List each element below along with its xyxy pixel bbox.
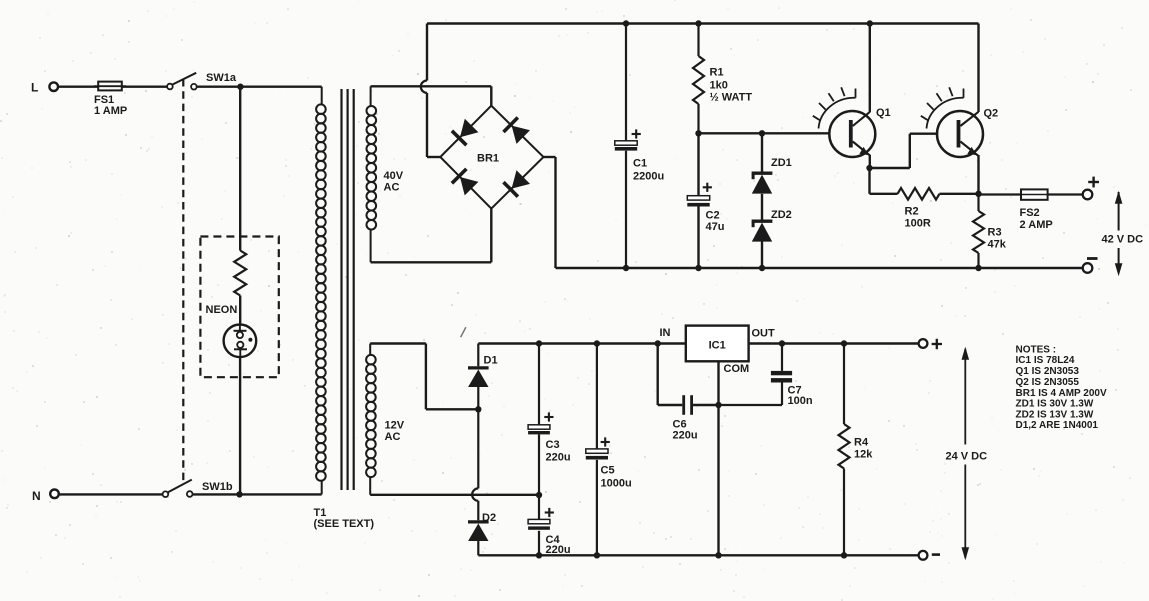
svg-text:IN: IN [660, 327, 671, 339]
svg-text:220u: 220u [546, 544, 571, 556]
node zener bottom [759, 265, 765, 271]
transformer 40V secondary winding [367, 86, 377, 262]
terminal 24V minus [919, 551, 940, 560]
node R3 bottom [975, 265, 981, 271]
42V DC span arrow [1102, 191, 1144, 276]
capacitor C5 [586, 344, 632, 556]
wire base drive [699, 132, 831, 134]
svg-text:COM: COM [724, 363, 750, 375]
label BR1 [477, 153, 499, 165]
24V DC span arrow [946, 347, 988, 560]
wire Q2 emitter [977, 155, 979, 194]
svg-text:BR1: BR1 [477, 153, 499, 165]
node COM bottom rail [715, 552, 721, 558]
svg-text:D2: D2 [482, 512, 496, 524]
wire Q1 collector [869, 24, 871, 113]
node R1 bottom junction [695, 130, 701, 136]
svg-text:ZD2 IS 13V 1.3W: ZD2 IS 13V 1.3W [1016, 410, 1094, 421]
svg-text:Q1: Q1 [876, 107, 891, 119]
svg-text:47k: 47k [988, 239, 1007, 251]
node C3 top [536, 340, 542, 346]
node R1 top [695, 20, 701, 26]
node COM C6 C7 [715, 402, 721, 408]
svg-text:AC: AC [384, 182, 400, 194]
node C1 top [623, 20, 629, 26]
scan artifact slash [461, 327, 466, 337]
bridge diode top-right [504, 118, 531, 144]
node Q1 emitter [866, 165, 872, 171]
svg-text:Q1 IS 2N3053: Q1 IS 2N3053 [1016, 366, 1080, 377]
wire COM [717, 361, 719, 555]
regulator IC1 [660, 326, 776, 375]
svg-text:Q2 IS 2N3055: Q2 IS 2N3055 [1016, 377, 1080, 388]
svg-text:2 AMP: 2 AMP [1020, 219, 1053, 231]
svg-text:½ WATT: ½ WATT [710, 92, 753, 104]
wire neon to bottom [239, 357, 241, 494]
node zener top [759, 130, 765, 136]
terminal 42V minus [1083, 259, 1098, 273]
node junction mains top [237, 84, 243, 90]
fuse FS1 [94, 82, 127, 117]
svg-text:12V: 12V [385, 420, 405, 432]
terminal L [31, 81, 58, 95]
svg-text:IC1 IS 78L24: IC1 IS 78L24 [1016, 355, 1075, 366]
bridge diode top-left [452, 119, 479, 145]
wire N to SW1b [59, 493, 163, 495]
wire IN drop [658, 344, 683, 406]
fuse FS2 [979, 189, 1083, 231]
zener ZD1 [752, 133, 792, 193]
wire 12V top lead to node [370, 344, 478, 410]
svg-text:C5: C5 [601, 465, 615, 477]
svg-text:R4: R4 [854, 437, 869, 449]
node C5 top [594, 340, 600, 346]
node C2 bottom [695, 265, 701, 271]
wire neon branch top [239, 87, 241, 251]
wire FS1 to SW1a [122, 85, 167, 87]
svg-text:OUT: OUT [752, 328, 776, 340]
svg-text:100R: 100R [905, 218, 931, 230]
svg-text:NOTES :: NOTES : [1016, 344, 1057, 355]
wire rail drop with hop [421, 24, 441, 158]
svg-text:AC: AC [385, 431, 401, 443]
svg-text:100n: 100n [788, 395, 813, 407]
wire SW1b to T1 primary [193, 493, 322, 495]
diode D2 with crossover hop [468, 409, 496, 555]
bridge rectifier BR1 frame [440, 106, 543, 209]
svg-text:D1: D1 [484, 355, 498, 367]
svg-text:L: L [31, 81, 38, 95]
node C1 bottom [623, 265, 629, 271]
svg-text:FS2: FS2 [1020, 207, 1040, 219]
svg-text:N: N [32, 489, 41, 503]
wire 40V bottom lead [371, 209, 492, 263]
svg-text:ZD1: ZD1 [771, 157, 792, 169]
resistor neon series [234, 251, 246, 296]
svg-text:C1: C1 [633, 158, 647, 170]
wire 12V bottom lead [370, 494, 539, 496]
resistor R4 [839, 344, 874, 556]
capacitor C6 [673, 395, 719, 441]
svg-text:ZD2: ZD2 [771, 209, 792, 221]
resistor R3 [973, 194, 1007, 268]
svg-text:R3: R3 [988, 227, 1002, 239]
wire SW1a to T1 primary [197, 85, 322, 87]
node Q1 collector rail [867, 20, 873, 26]
svg-text:12k: 12k [854, 449, 873, 461]
svg-text:40V: 40V [384, 170, 404, 182]
label 12V AC [385, 420, 405, 444]
neon dashed enclosure [200, 237, 278, 378]
transformer 12V secondary winding [366, 344, 376, 495]
svg-text:1k0: 1k0 [710, 80, 728, 92]
switch gang dashed link [182, 79, 184, 482]
node junction mains bottom [236, 491, 242, 497]
node R4 bottom [841, 552, 847, 558]
wire 40V top lead [371, 86, 492, 105]
svg-text:IC1: IC1 [709, 340, 726, 352]
svg-text:2200u: 2200u [633, 171, 664, 183]
svg-text:R2: R2 [905, 206, 919, 218]
wire lower plus rail [478, 342, 918, 344]
wire Q1e to Q2 base [870, 134, 939, 168]
bridge diode bottom-left [452, 169, 479, 196]
transformer T1 primary winding [316, 87, 326, 495]
zener ZD2 [752, 209, 792, 242]
label T1 [314, 507, 375, 530]
wire zener bottom [761, 242, 763, 269]
wire top rail [427, 22, 979, 24]
node R4 top [841, 340, 847, 346]
svg-text:220u: 220u [546, 452, 571, 464]
diode D1 [468, 344, 498, 410]
wire upper bottom rail [556, 267, 1083, 269]
wire Q1 emitter [869, 155, 871, 168]
node C3 C4 midpoint [536, 492, 542, 498]
svg-text:BR1 IS 4 AMP 200V: BR1 IS 4 AMP 200V [1016, 388, 1107, 399]
svg-text:SW1a: SW1a [206, 72, 237, 84]
node OUT junction [779, 340, 785, 346]
svg-text:ZD1 IS 30V 1.3W: ZD1 IS 30V 1.3W [1016, 399, 1094, 410]
capacitor C7 [719, 344, 813, 408]
wire Q1e down to R2 [868, 168, 870, 194]
svg-text:C2: C2 [706, 210, 720, 222]
label 40V AC [384, 170, 404, 194]
switch SW1a [167, 72, 237, 89]
node C4 bottom [536, 552, 542, 558]
svg-text:C3: C3 [546, 439, 560, 451]
svg-text:(SEE TEXT): (SEE TEXT) [314, 518, 375, 530]
notes text block [1016, 344, 1107, 431]
neon lamp [206, 304, 257, 357]
wire lower bottom rail [478, 554, 918, 556]
capacitor C4 [528, 495, 570, 556]
heatsink mark Q2 [921, 87, 964, 128]
svg-text:1 AMP: 1 AMP [94, 105, 127, 117]
resistor R1 [693, 24, 752, 134]
terminal 42V plus [1083, 177, 1099, 200]
switch SW1b [163, 480, 233, 497]
node output junction [975, 191, 981, 197]
transformer core [342, 89, 354, 490]
node C5 bottom [594, 552, 600, 558]
node D1 D2 junction [475, 406, 481, 412]
bridge diode bottom-right [504, 170, 531, 197]
svg-text:R1: R1 [710, 67, 724, 79]
heatsink mark Q1 [813, 87, 856, 128]
wire zener middle [761, 194, 763, 220]
svg-text:1000u: 1000u [601, 478, 632, 490]
svg-text:220u: 220u [673, 430, 698, 442]
svg-text:NEON: NEON [206, 304, 238, 316]
capacitor C2 [687, 133, 724, 268]
wire resistor to neon [239, 296, 241, 325]
resistor R2 [870, 188, 979, 230]
terminal 24V plus [919, 339, 942, 349]
svg-text:SW1b: SW1b [202, 481, 233, 493]
svg-text:42 V DC: 42 V DC [1102, 234, 1144, 246]
terminal N [32, 489, 59, 503]
svg-text:Q2: Q2 [984, 108, 999, 120]
wire Q2 collector [977, 24, 979, 113]
transistor Q1 [829, 107, 890, 157]
capacitor C1 [615, 24, 664, 269]
svg-text:47u: 47u [706, 221, 725, 233]
svg-text:D1,2 ARE 1N4001: D1,2 ARE 1N4001 [1016, 420, 1099, 431]
svg-text:24 V DC: 24 V DC [946, 451, 988, 463]
capacitor C3 [528, 344, 570, 496]
transistor Q2 [937, 108, 998, 158]
wire bridge minus lead [544, 157, 556, 268]
node IN junction [655, 340, 661, 346]
wire L to FS1 [58, 85, 98, 87]
